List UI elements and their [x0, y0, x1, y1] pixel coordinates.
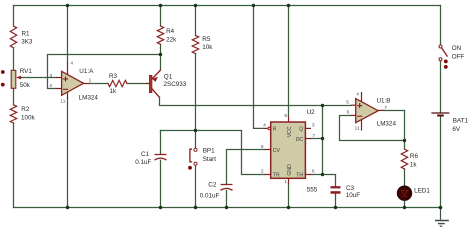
- svg-text:OFF: OFF: [452, 53, 465, 60]
- wire C1 top lead: [160, 131, 162, 155]
- svg-text:50k: 50k: [20, 82, 31, 89]
- svg-text:100k: 100k: [21, 115, 36, 122]
- svg-text:10k: 10k: [202, 44, 213, 51]
- junction TH pin6: [321, 173, 324, 176]
- wire R5 bottom to trigger node: [195, 54, 197, 131]
- junction top rail / R5: [194, 4, 197, 7]
- svg-text:RV1: RV1: [20, 68, 33, 75]
- svg-text:R: R: [273, 126, 277, 132]
- svg-text:BAT1: BAT1: [453, 117, 469, 124]
- svg-text:6: 6: [312, 169, 315, 175]
- junction bottom rail / LED1: [403, 206, 406, 209]
- wire U1:A output to R3: [90, 83, 109, 85]
- wire U1:A pin2 feedback to R4/Q1 emitter node: [48, 55, 161, 89]
- svg-text:22k: 22k: [166, 37, 177, 44]
- svg-text:1: 1: [284, 179, 287, 185]
- capacitor C1: [155, 155, 167, 161]
- wire R1 to RV1: [13, 48, 15, 71]
- svg-text:0.01uF: 0.01uF: [200, 192, 220, 199]
- svg-text:U1:B: U1:B: [377, 98, 391, 105]
- wire DC-TH vertical bus: [322, 106, 324, 175]
- wire rail to switch top: [440, 6, 442, 46]
- wire battery to bottom rail: [440, 116, 442, 207]
- svg-text:Q: Q: [299, 126, 303, 132]
- junction bottom rail / C3: [334, 206, 337, 209]
- wire RV1 to R2: [13, 88, 15, 105]
- svg-text:8: 8: [284, 113, 287, 119]
- svg-text:U1:A: U1:A: [79, 68, 94, 75]
- resistor R3: [108, 80, 127, 86]
- junction top rail / 555 reset wire: [252, 4, 255, 7]
- svg-text:5: 5: [346, 99, 349, 105]
- wire CV pin5 to C2: [227, 150, 265, 185]
- wire Q1 collector down and across to U1:B pin5: [160, 97, 351, 105]
- resistor R2: [10, 105, 16, 123]
- svg-text:3: 3: [312, 122, 315, 128]
- svg-text:2SC933: 2SC933: [164, 81, 187, 88]
- capacitor C3: [331, 186, 341, 194]
- wire BP1 bottom to rail: [195, 165, 197, 207]
- wire VCC drop to U1:A pin4: [67, 6, 69, 63]
- junction top rail / R4: [159, 4, 162, 7]
- svg-text:1k: 1k: [110, 88, 118, 95]
- battery BAT1: [431, 113, 449, 117]
- svg-text:11: 11: [355, 125, 360, 131]
- wire U1:B pin6 feedback loop: [340, 116, 405, 141]
- svg-text:4: 4: [263, 123, 266, 129]
- resistor R4: [157, 26, 163, 44]
- svg-text:3K3: 3K3: [21, 38, 33, 45]
- svg-text:3: 3: [50, 73, 53, 79]
- svg-text:10uF: 10uF: [346, 192, 361, 199]
- wire RV1 wiper to U1:A pin3: [18, 77, 56, 79]
- potentiometer RV1: [1, 70, 21, 88]
- wire left rail R1 top lead: [13, 6, 15, 27]
- svg-text:11: 11: [60, 98, 65, 104]
- svg-text:1: 1: [89, 78, 92, 84]
- junction bottom rail / battery-ground: [439, 206, 443, 210]
- wire R4 bottom to node A: [160, 44, 162, 54]
- wire trigger net C1 BP1 to TR pin2: [161, 131, 265, 175]
- svg-text:2: 2: [50, 83, 53, 89]
- svg-text:4: 4: [356, 92, 359, 98]
- LED1: [397, 186, 411, 200]
- wire U1:B output to feedback node and R6: [384, 111, 405, 150]
- junction bottom rail / U1:A pin11: [66, 206, 69, 209]
- push button BP1: [188, 148, 197, 170]
- wire node A to Q1 emitter diagonal: [160, 55, 162, 70]
- svg-text:C3: C3: [346, 185, 355, 192]
- svg-text:Start: Start: [203, 156, 217, 163]
- wire 555 reset from rail: [254, 6, 264, 129]
- svg-text:R4: R4: [166, 28, 175, 35]
- svg-text:R2: R2: [21, 106, 30, 113]
- capacitor C2: [221, 185, 233, 191]
- junction trigger node R5-BP1-C1-TR: [194, 129, 197, 132]
- svg-text:7: 7: [384, 105, 387, 111]
- svg-text:2: 2: [261, 169, 264, 175]
- svg-text:DC: DC: [296, 137, 304, 143]
- junction DC pin7: [321, 137, 324, 140]
- svg-text:TR: TR: [273, 173, 280, 179]
- timer U2 555: [263, 117, 311, 184]
- svg-text:R5: R5: [202, 36, 211, 43]
- junction Q1 collector net / U1:B pin5 wire: [321, 104, 324, 107]
- wire U1:A pin11 to bottom rail: [67, 99, 69, 208]
- svg-text:6: 6: [347, 110, 350, 116]
- wire C1 bottom to rail: [160, 160, 162, 207]
- wire bottom GND rail: [14, 207, 441, 209]
- wire C2 bottom to rail: [226, 190, 228, 207]
- wire R4 top lead from rail: [160, 6, 162, 27]
- wire R5 top lead from rail: [195, 6, 197, 36]
- svg-text:R3: R3: [109, 73, 118, 80]
- op-amp U1:A: [56, 62, 90, 99]
- svg-text:Q1: Q1: [164, 74, 173, 81]
- resistor R5: [192, 35, 198, 53]
- svg-text:555: 555: [307, 186, 318, 193]
- svg-text:0.1uF: 0.1uF: [135, 159, 151, 166]
- svg-text:GND: GND: [287, 164, 293, 176]
- wire 555 GND pin1 to rail: [288, 184, 290, 208]
- svg-text:R1: R1: [22, 30, 31, 37]
- junction node A R4-Q1 emitter-U1:A pin2: [159, 53, 162, 56]
- svg-text:VCC: VCC: [287, 126, 293, 137]
- wire 555 VCC pin8 from rail: [288, 6, 290, 117]
- ground: [435, 208, 449, 227]
- junction top rail / U1:A pin4 wire: [66, 4, 69, 7]
- wire BP1 top lead: [195, 131, 197, 149]
- svg-text:LM324: LM324: [377, 121, 397, 128]
- svg-text:4: 4: [70, 61, 73, 67]
- svg-text:TH: TH: [296, 173, 303, 179]
- svg-text:C2: C2: [208, 182, 217, 189]
- op-amp U1:B: [351, 92, 385, 131]
- svg-text:U2: U2: [307, 109, 316, 116]
- resistor R1: [10, 26, 16, 48]
- svg-text:5: 5: [261, 144, 264, 150]
- wire R3 to Q1 base: [127, 83, 147, 85]
- junction U1:B output-feedback-R6: [403, 139, 406, 142]
- switch SW ON/OFF: [439, 45, 448, 69]
- wire LED1 to bottom rail: [404, 200, 406, 207]
- wire TH pin6 to C3: [311, 175, 336, 187]
- transistor Q1: [146, 70, 160, 97]
- svg-text:7: 7: [312, 133, 315, 139]
- svg-text:CV: CV: [273, 148, 281, 154]
- junction bottom rail / C1: [159, 206, 162, 209]
- wire top VCC rail: [14, 5, 441, 7]
- wire R2 to bottom rail: [13, 123, 15, 208]
- junction bottom rail / C2: [225, 206, 228, 209]
- svg-text:C1: C1: [141, 151, 150, 158]
- wire R6 to LED1: [404, 169, 406, 186]
- wire DC pin7 to vertical bus: [311, 138, 323, 140]
- junction bottom rail / BP1: [194, 206, 197, 209]
- svg-text:LED1: LED1: [414, 188, 430, 195]
- svg-text:ON: ON: [452, 45, 462, 52]
- junction top rail / 555 VCC wire: [287, 4, 290, 7]
- svg-text:6V: 6V: [452, 126, 461, 133]
- wire C3 bottom to rail: [335, 194, 337, 208]
- wire switch bottom to battery: [440, 61, 442, 113]
- svg-text:R6: R6: [410, 153, 419, 160]
- svg-text:BP1: BP1: [203, 148, 215, 155]
- svg-text:1k: 1k: [410, 161, 418, 168]
- resistor R6: [401, 149, 407, 169]
- svg-text:LM324: LM324: [79, 95, 99, 102]
- junction bottom rail / 555 GND: [287, 206, 290, 209]
